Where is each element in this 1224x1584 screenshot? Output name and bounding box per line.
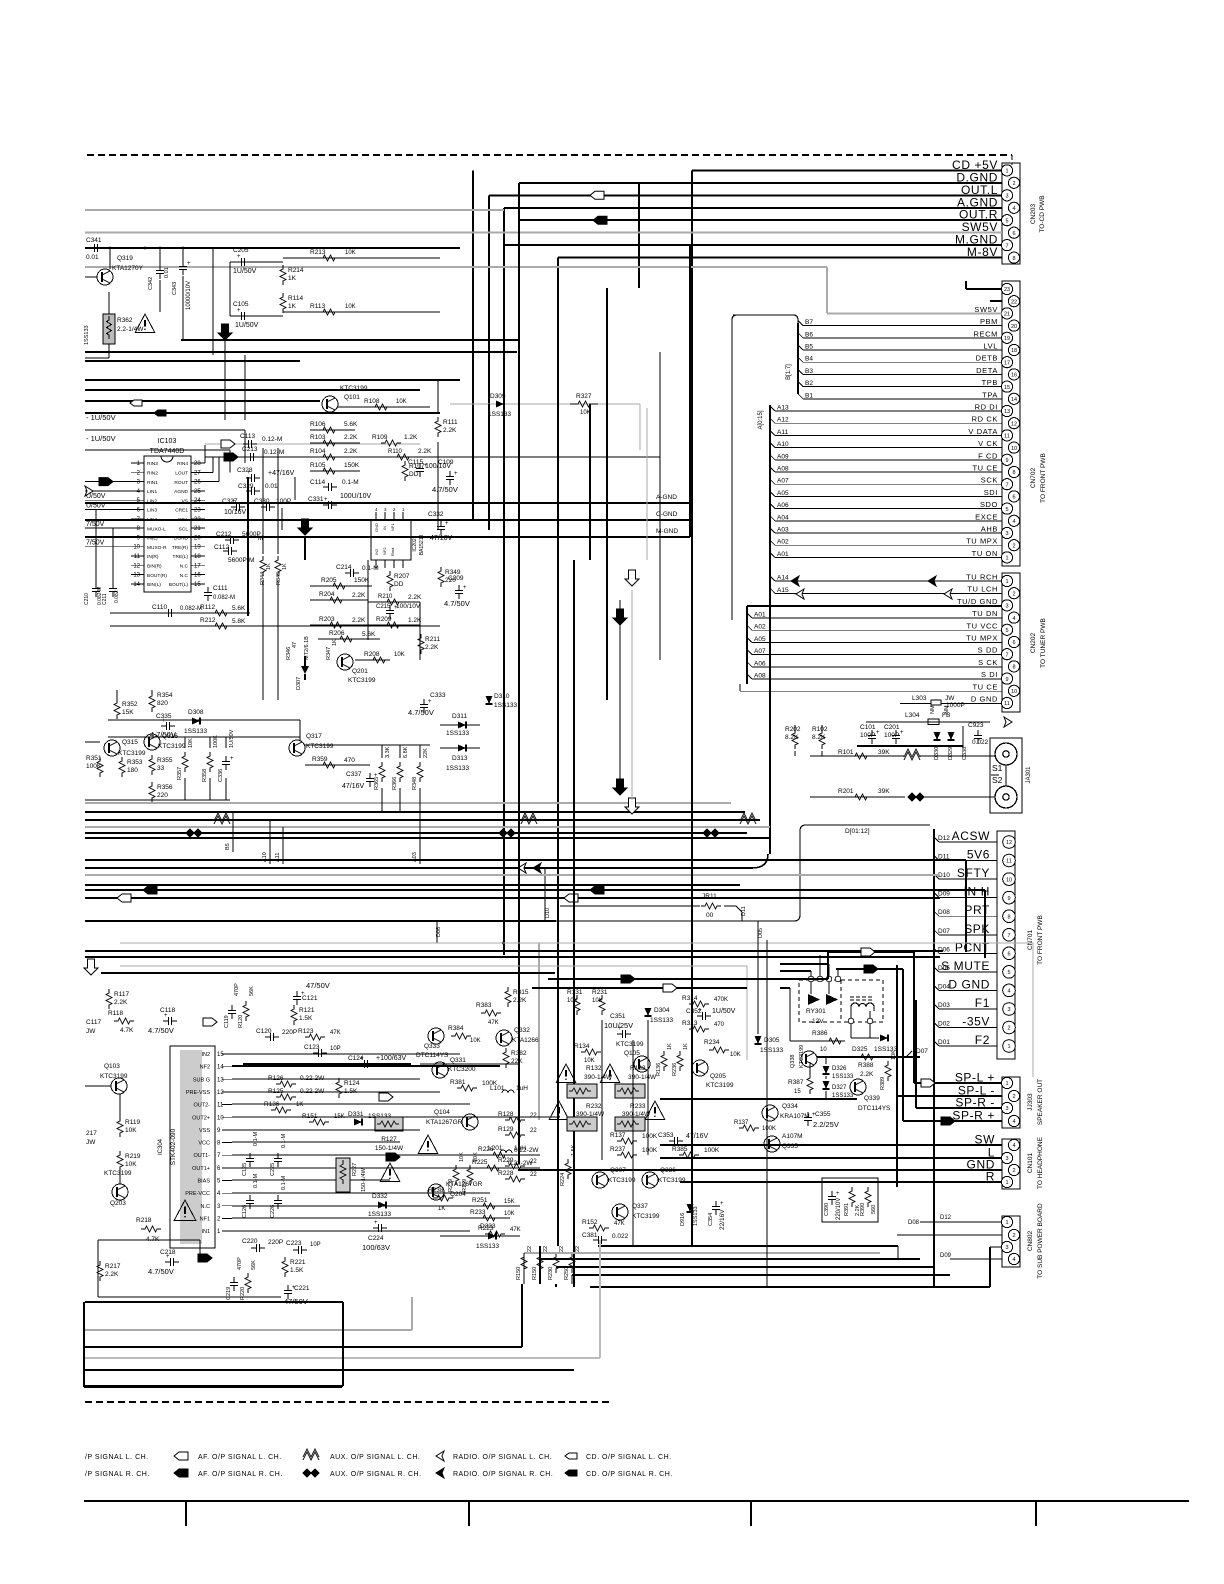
svg-text:TO-CD PWB: TO-CD PWB (1039, 195, 1046, 232)
svg-text:100K: 100K (642, 1133, 658, 1140)
svg-text:100P: 100P (860, 732, 875, 739)
svg-text:16: 16 (1011, 373, 1017, 379)
svg-text:NM: NM (930, 705, 936, 714)
svg-text:150-1/4W: 150-1/4W (375, 1145, 404, 1152)
svg-text:C336: C336 (218, 769, 224, 782)
svg-text:R134: R134 (574, 1043, 590, 1050)
svg-text:15: 15 (794, 1089, 801, 1095)
svg-text:2.2K: 2.2K (352, 617, 366, 624)
svg-text:R388: R388 (858, 1062, 874, 1069)
svg-text:R136: R136 (264, 1101, 280, 1108)
svg-text:D05: D05 (938, 965, 950, 972)
svg-text:12: 12 (1011, 421, 1017, 427)
svg-text:22/16V: 22/16V (719, 1209, 726, 1230)
svg-text:7: 7 (1005, 652, 1008, 658)
svg-text:JW: JW (86, 1028, 96, 1035)
svg-text:SUB G: SUB G (193, 1077, 210, 1083)
svg-text:/P SIGNAL R. CH.: /P SIGNAL R. CH. (85, 1471, 150, 1478)
svg-text:2.2K: 2.2K (114, 999, 128, 1006)
svg-text:10K: 10K (730, 1052, 741, 1058)
svg-text:2.2/25V: 2.2/25V (813, 1120, 839, 1129)
svg-text:+: + (454, 471, 458, 477)
svg-text:R137: R137 (734, 1120, 749, 1126)
svg-text:R203: R203 (319, 616, 335, 623)
svg-text:R234: R234 (704, 1039, 720, 1046)
svg-text:Q333: Q333 (424, 1043, 440, 1050)
svg-text:C353: C353 (658, 1132, 674, 1139)
svg-text:+: + (230, 756, 234, 762)
svg-text:R106: R106 (310, 421, 326, 428)
svg-text:C333: C333 (430, 692, 446, 699)
svg-text:16: 16 (194, 573, 201, 579)
svg-text:CN202: CN202 (1030, 632, 1037, 653)
svg-text:C352: C352 (686, 1008, 702, 1015)
svg-text:C109: C109 (438, 459, 454, 466)
svg-text:13: 13 (217, 1077, 224, 1083)
svg-text:C329: C329 (238, 483, 254, 490)
svg-text:+: + (720, 1201, 724, 1207)
svg-text:8.2K: 8.2K (785, 734, 799, 741)
svg-text:470K: 470K (714, 997, 728, 1003)
svg-text:D326: D326 (832, 1066, 847, 1072)
svg-text:KTC3200: KTC3200 (448, 1066, 476, 1073)
svg-text:D311: D311 (452, 713, 467, 720)
svg-text:DTC114YS: DTC114YS (416, 1052, 449, 1059)
svg-text:C343: C343 (172, 282, 178, 295)
svg-text:L304: L304 (905, 712, 920, 719)
svg-text:3: 3 (1005, 1156, 1008, 1162)
svg-text:C328: C328 (237, 467, 253, 474)
svg-text:R126: R126 (268, 1075, 284, 1082)
svg-text:BIN(L): BIN(L) (147, 582, 161, 588)
svg-text:KTC3199: KTC3199 (340, 385, 368, 392)
svg-text:220P: 220P (268, 1239, 283, 1246)
svg-text:C209: C209 (448, 575, 464, 582)
svg-text:LVL: LVL (983, 342, 998, 351)
svg-text:8: 8 (1012, 256, 1015, 262)
svg-text:Q334: Q334 (782, 1103, 798, 1110)
svg-text:B3: B3 (805, 368, 813, 375)
svg-text:C210: C210 (84, 593, 90, 605)
svg-text:100K: 100K (642, 1147, 658, 1154)
svg-text:R354: R354 (157, 692, 173, 699)
svg-text:A107M: A107M (782, 1133, 803, 1140)
svg-text:TO SUB POWER BOARD: TO SUB POWER BOARD (1037, 1203, 1044, 1279)
svg-text:JA301: JA301 (1026, 766, 1032, 784)
svg-text:IC103: IC103 (158, 438, 177, 445)
svg-text:10: 10 (133, 545, 140, 551)
svg-text:Q317: Q317 (306, 733, 322, 740)
svg-text:390-1/4W: 390-1/4W (584, 1074, 613, 1081)
svg-text:D08: D08 (938, 909, 950, 916)
svg-text:R347: R347 (326, 647, 332, 660)
svg-text:1U/50V: 1U/50V (712, 1008, 736, 1015)
svg-text:D313: D313 (452, 755, 468, 762)
svg-text:470: 470 (714, 1022, 725, 1028)
svg-text:10K: 10K (188, 738, 194, 748)
svg-text:PRE-VCC: PRE-VCC (185, 1191, 210, 1197)
svg-text:R150: R150 (516, 1267, 522, 1280)
svg-text:R118: R118 (108, 1010, 123, 1017)
svg-text:R232: R232 (586, 1103, 602, 1110)
svg-text:21: 21 (1004, 312, 1010, 318)
svg-text:+: + (900, 730, 904, 736)
svg-text:R365: R365 (374, 777, 380, 790)
svg-text:RD DI: RD DI (975, 403, 998, 412)
svg-text:1SS133: 1SS133 (693, 1206, 699, 1226)
svg-text:TO TUNER PWB: TO TUNER PWB (1040, 618, 1047, 668)
svg-text:1U/50V: 1U/50V (233, 268, 257, 275)
svg-text:0.01: 0.01 (86, 254, 99, 261)
svg-text:15K: 15K (122, 709, 134, 716)
svg-text:R384: R384 (448, 1025, 464, 1032)
svg-text:Q316: Q316 (162, 733, 178, 740)
svg-text:R129: R129 (498, 1126, 514, 1133)
svg-text:B2: B2 (805, 380, 813, 387)
svg-text:Q203: Q203 (110, 1200, 126, 1207)
svg-text:A02: A02 (754, 624, 766, 631)
svg-text:B7: B7 (805, 319, 813, 326)
svg-text:3: 3 (1005, 1245, 1008, 1251)
svg-text:10K: 10K (125, 1127, 137, 1134)
svg-text:+: + (618, 1026, 622, 1032)
svg-text:4.7K: 4.7K (120, 1027, 134, 1034)
svg-text:0.01: 0.01 (164, 267, 170, 278)
svg-text:A13: A13 (777, 405, 789, 412)
svg-text:R214: R214 (288, 267, 304, 274)
svg-text:R218: R218 (136, 1217, 152, 1224)
svg-text:BIAS: BIAS (197, 1179, 210, 1185)
svg-text:KTA1270Y: KTA1270Y (112, 265, 144, 272)
svg-text:C120: C120 (256, 1028, 272, 1035)
svg-text:0.22-2W: 0.22-2W (514, 1147, 539, 1154)
svg-text:2.2K: 2.2K (344, 434, 358, 441)
svg-text:LIN3: LIN3 (147, 508, 157, 514)
svg-text:R136: R136 (656, 1063, 662, 1076)
svg-text:6.8K: 6.8K (403, 746, 409, 758)
svg-text:R121: R121 (299, 1007, 315, 1014)
svg-text:R201: R201 (838, 788, 854, 795)
svg-text:KTC3199: KTC3199 (104, 1170, 132, 1177)
svg-text:0.022: 0.022 (612, 1233, 629, 1240)
svg-text:10: 10 (1011, 446, 1017, 452)
svg-text:1SS133: 1SS133 (488, 411, 512, 418)
svg-text:33: 33 (157, 765, 165, 772)
svg-text:R152: R152 (582, 1219, 598, 1226)
svg-text:BOUT(R): BOUT(R) (147, 573, 167, 579)
svg-text:100/63V: 100/63V (362, 1243, 390, 1252)
svg-text:6: 6 (1012, 231, 1015, 237)
svg-text:0.1-M: 0.1-M (253, 1132, 259, 1146)
svg-text:220P: 220P (282, 1029, 297, 1036)
svg-text:D305: D305 (764, 1037, 780, 1044)
svg-text:R359: R359 (312, 756, 328, 763)
svg-text:C126: C126 (242, 1205, 248, 1218)
svg-text:10K: 10K (592, 998, 603, 1004)
svg-text:IN2: IN2 (374, 548, 379, 555)
svg-text:1K: 1K (683, 1043, 689, 1050)
svg-text:KTC3199: KTC3199 (608, 1177, 636, 1184)
svg-text:100U/10V: 100U/10V (340, 493, 371, 500)
svg-text:R206: R206 (329, 630, 345, 637)
svg-text:C225: C225 (270, 1163, 276, 1176)
svg-text:R117: R117 (114, 991, 129, 998)
svg-text:R389: R389 (880, 1077, 886, 1090)
svg-text:10: 10 (820, 1047, 827, 1053)
svg-text:L303: L303 (912, 695, 927, 702)
svg-text:3: 3 (1005, 531, 1008, 537)
svg-text:22: 22 (1011, 299, 1017, 305)
svg-text:KTC3199: KTC3199 (118, 750, 146, 757)
svg-text:+: + (237, 254, 241, 260)
svg-text:0.12-M: 0.12-M (262, 436, 282, 443)
svg-text:+: + (237, 308, 241, 314)
svg-text:D309: D309 (490, 393, 506, 400)
svg-text:3: 3 (1005, 194, 1008, 200)
svg-text:R120: R120 (238, 1015, 244, 1028)
svg-text:180: 180 (127, 767, 138, 774)
svg-text:10P: 10P (330, 1046, 341, 1052)
svg-text:15: 15 (194, 582, 201, 588)
svg-text:5.6K: 5.6K (362, 631, 376, 638)
svg-text:R101: R101 (838, 749, 854, 756)
svg-text:R223: R223 (478, 1225, 494, 1232)
svg-text:7: 7 (1007, 933, 1010, 939)
svg-text:R362: R362 (117, 317, 133, 324)
svg-text:2.2K: 2.2K (418, 448, 432, 455)
svg-text:C226: C226 (270, 1205, 276, 1218)
svg-text:C205: C205 (233, 247, 249, 254)
svg-text:470: 470 (344, 757, 355, 764)
svg-text:C111: C111 (213, 585, 228, 592)
svg-text:RY301: RY301 (806, 1008, 826, 1015)
svg-text:R150: R150 (532, 1267, 538, 1280)
svg-text:R352: R352 (122, 701, 138, 708)
svg-text:A15: A15 (777, 587, 789, 594)
svg-text:39K: 39K (878, 788, 890, 795)
svg-text:KTC3199: KTC3199 (799, 1045, 805, 1068)
svg-text:R226: R226 (478, 1146, 494, 1153)
svg-text:D307: D307 (296, 677, 302, 690)
svg-text:2: 2 (1012, 543, 1015, 549)
svg-text:R351: R351 (86, 755, 102, 762)
svg-text:B6: B6 (805, 331, 813, 338)
svg-text:10/16V: 10/16V (224, 509, 247, 516)
svg-text:560: 560 (871, 1205, 877, 1214)
svg-text:2: 2 (1012, 1094, 1015, 1100)
svg-text:IN: IN (382, 526, 387, 530)
svg-text:U/50V: U/50V (86, 493, 106, 500)
svg-text:10K: 10K (394, 652, 405, 658)
svg-text:D08: D08 (908, 1220, 920, 1226)
svg-text:2.2-1/4W: 2.2-1/4W (117, 326, 144, 333)
svg-text:Q201: Q201 (352, 668, 368, 675)
svg-text:A05: A05 (777, 490, 789, 497)
svg-text:10K: 10K (396, 399, 407, 405)
svg-text:R231: R231 (592, 989, 608, 996)
svg-text:R219: R219 (125, 1153, 141, 1160)
svg-text:4: 4 (1012, 206, 1015, 212)
svg-text:MUXO-R: MUXO-R (147, 545, 167, 551)
svg-text:/P SIGNAL L. CH.: /P SIGNAL L. CH. (85, 1454, 149, 1461)
svg-text:N.C: N.C (180, 564, 189, 570)
svg-text:S1: S1 (992, 763, 1003, 773)
svg-text:R209: R209 (376, 616, 392, 623)
svg-text:R228: R228 (498, 1170, 514, 1177)
svg-text:SCK: SCK (981, 476, 998, 485)
svg-text:A09: A09 (777, 453, 789, 460)
svg-text:A07: A07 (777, 478, 789, 485)
svg-text:18: 18 (194, 554, 201, 560)
svg-text:220: 220 (157, 792, 168, 799)
svg-text:8.2K: 8.2K (812, 734, 826, 741)
svg-text:2: 2 (1012, 181, 1015, 187)
svg-text:20: 20 (1011, 324, 1017, 330)
svg-text:C338: C338 (962, 747, 968, 760)
svg-text:SCL: SCL (179, 526, 189, 532)
svg-text:D329: D329 (948, 747, 954, 760)
svg-text:100K: 100K (86, 763, 102, 770)
svg-text:B4: B4 (805, 356, 813, 363)
svg-text:1SS133: 1SS133 (184, 728, 208, 735)
svg-text:R213: R213 (310, 249, 326, 256)
svg-text:5: 5 (1005, 628, 1008, 634)
svg-text:TU MPX: TU MPX (966, 537, 998, 546)
svg-text:CD. O/P SIGNAL R. CH.: CD. O/P SIGNAL R. CH. (586, 1471, 673, 1478)
svg-text:C355: C355 (815, 1111, 831, 1118)
svg-text:12: 12 (1006, 840, 1012, 846)
svg-text:GND: GND (374, 523, 379, 532)
svg-text:A08: A08 (754, 673, 766, 680)
svg-text:D308: D308 (188, 709, 204, 716)
svg-text:2: 2 (1007, 1026, 1010, 1032)
svg-text:C123: C123 (304, 1044, 320, 1051)
svg-text:4.7/50V: 4.7/50V (408, 708, 434, 717)
svg-text:47/50V: 47/50V (306, 981, 330, 990)
svg-text:R250: R250 (564, 1267, 570, 1280)
svg-text:SPEAKER OUT: SPEAKER OUT (1037, 1079, 1044, 1125)
svg-text:4: 4 (1012, 1257, 1015, 1263)
svg-text:4: 4 (1007, 989, 1010, 995)
svg-text:2.2K: 2.2K (513, 997, 527, 1004)
svg-text:KRA107M: KRA107M (780, 1113, 810, 1120)
svg-text:PRE-VSS: PRE-VSS (186, 1090, 210, 1096)
svg-text:V CK: V CK (978, 439, 998, 448)
svg-text:6: 6 (1007, 952, 1010, 958)
svg-text:TO HEADPHONE: TO HEADPHONE (1037, 1136, 1044, 1189)
svg-text:6: 6 (1012, 640, 1015, 646)
svg-text:Q105: Q105 (624, 1050, 640, 1057)
svg-text:14: 14 (217, 1065, 224, 1071)
svg-text:KTC3199: KTC3199 (616, 1041, 644, 1048)
svg-text:TU RCH: TU RCH (966, 573, 998, 582)
svg-text:11: 11 (134, 554, 141, 560)
svg-text:B5: B5 (225, 843, 231, 850)
svg-text:B1: B1 (805, 392, 813, 399)
svg-text:19: 19 (194, 545, 201, 551)
svg-text:3: 3 (1005, 1106, 1008, 1112)
svg-text:26: 26 (194, 480, 201, 486)
svg-text:28: 28 (194, 461, 201, 467)
svg-text:R132: R132 (586, 1065, 602, 1072)
svg-text:R159: R159 (462, 1179, 468, 1192)
svg-text:7: 7 (1005, 482, 1008, 488)
svg-text:2.2K: 2.2K (425, 644, 439, 651)
svg-text:A03: A03 (777, 527, 789, 534)
svg-text:C110: C110 (152, 604, 167, 611)
svg-text:2: 2 (1012, 591, 1015, 597)
svg-text:SPK: SPK (964, 922, 990, 936)
svg-text:820: 820 (157, 700, 168, 707)
svg-text:23: 23 (194, 508, 201, 514)
svg-text:C213: C213 (242, 446, 258, 453)
svg-text:R123: R123 (298, 1028, 314, 1035)
svg-text:R224: R224 (560, 1173, 566, 1186)
svg-text:A12: A12 (777, 417, 789, 424)
svg-text:R348: R348 (412, 777, 418, 790)
svg-text:47/16V: 47/16V (686, 1133, 709, 1140)
svg-text:CN802: CN802 (1027, 1230, 1034, 1251)
svg-text:RIN1: RIN1 (147, 480, 158, 486)
svg-text:R137: R137 (610, 1132, 626, 1139)
svg-text:A11: A11 (777, 429, 788, 436)
svg-text:C211: C211 (102, 593, 108, 605)
svg-text:D05: D05 (758, 928, 764, 938)
svg-text:R207: R207 (394, 573, 410, 580)
svg-text:14: 14 (133, 582, 140, 588)
svg-text:Q315: Q315 (122, 739, 138, 746)
svg-text:ROUT: ROUT (174, 480, 188, 486)
svg-text:CN101: CN101 (1027, 1152, 1034, 1173)
svg-text:A08: A08 (777, 466, 789, 473)
svg-text:1K: 1K (266, 563, 272, 570)
svg-text:R133: R133 (630, 1065, 646, 1072)
svg-text:R212: R212 (200, 617, 216, 624)
svg-text:D02: D02 (938, 1021, 950, 1028)
svg-text:11: 11 (1006, 859, 1012, 865)
svg-text:D310: D310 (494, 693, 510, 700)
svg-text:+: + (876, 730, 880, 736)
svg-text:4.7/50V: 4.7/50V (148, 1267, 174, 1276)
svg-text:+47/16V: +47/16V (268, 470, 295, 477)
svg-text:R112: R112 (200, 604, 215, 611)
svg-text:0.082: 0.082 (114, 590, 120, 603)
svg-text:23: 23 (1004, 287, 1010, 293)
svg-text:10K: 10K (345, 250, 356, 256)
svg-text:+: + (836, 1191, 840, 1197)
svg-text:22K: 22K (423, 748, 429, 758)
svg-text:R124: R124 (344, 1080, 360, 1087)
svg-text:C923: C923 (968, 722, 984, 729)
svg-text:12V: 12V (812, 1018, 824, 1025)
svg-text:9: 9 (1005, 677, 1008, 683)
svg-text:R220: R220 (240, 1287, 246, 1300)
svg-text:TU LCH: TU LCH (967, 585, 998, 594)
svg-text:100K: 100K (762, 1126, 776, 1132)
svg-text:10: 10 (217, 1115, 224, 1121)
svg-text:R237: R237 (610, 1146, 626, 1153)
svg-text:56K: 56K (249, 986, 255, 996)
svg-text:1K: 1K (296, 1102, 303, 1108)
svg-text:10: 10 (1011, 689, 1017, 695)
svg-text:4.7/50V: 4.7/50V (148, 1026, 174, 1035)
svg-text:0.22 2W: 0.22 2W (300, 1088, 325, 1095)
svg-text:D03: D03 (938, 1002, 950, 1009)
svg-text:1: 1 (1005, 1220, 1008, 1226)
svg-text:R327: R327 (576, 393, 592, 400)
svg-text:47K: 47K (510, 1227, 521, 1233)
svg-text:TDA7440D: TDA7440D (150, 448, 185, 455)
